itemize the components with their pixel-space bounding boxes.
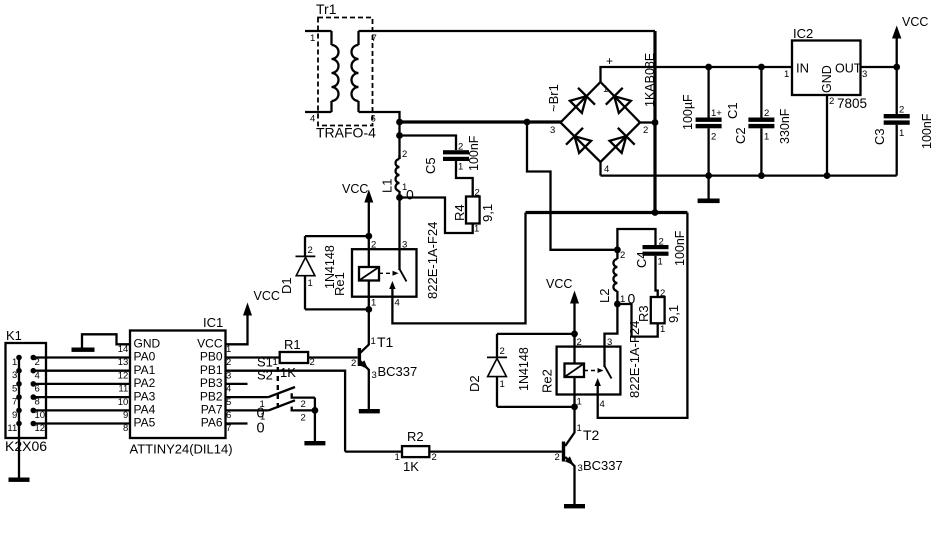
svg-text:2: 2: [620, 250, 625, 261]
svg-text:1: 1: [308, 278, 313, 289]
node 0 (L2 pin1 junction): [614, 301, 621, 308]
svg-text:2: 2: [659, 237, 664, 248]
relay Re2 822E-1A-F24: [557, 321, 642, 410]
node: junction pin6 wire / channel-2 feed: [524, 119, 531, 126]
svg-text:1N4148: 1N4148: [517, 347, 531, 391]
wire: K1 pin12 to IC1 PA5: [33, 422, 130, 424]
svg-text:R3: R3: [636, 305, 651, 322]
wire: C4 branch: [617, 229, 655, 250]
svg-text:VCC: VCC: [254, 289, 280, 303]
svg-text:1: 1: [660, 324, 665, 335]
wire: ground rail: [601, 174, 897, 176]
relay Re1 822E-1A-F24: [352, 198, 440, 310]
svg-text:IN: IN: [796, 61, 809, 76]
svg-text:GND: GND: [820, 65, 834, 93]
svg-text:0: 0: [257, 406, 265, 422]
svg-text:3: 3: [550, 125, 555, 136]
svg-text:1: 1: [310, 33, 315, 44]
svg-text:PB3: PB3: [200, 376, 223, 390]
node: D1 / Re1 pin1 / T1 collector: [365, 306, 372, 313]
svg-text:2: 2: [351, 358, 356, 369]
capacitor C3 100nF: [872, 67, 934, 176]
wire: bridge pin 1 (+) to IC2 IN: [601, 67, 793, 82]
svg-text:4: 4: [600, 399, 605, 410]
svg-text:2: 2: [660, 288, 665, 299]
wire: C5 to R4: [456, 161, 473, 197]
svg-text:822E-1A-F24: 822E-1A-F24: [627, 321, 642, 398]
svg-text:BC337: BC337: [378, 364, 418, 379]
svg-text:2: 2: [500, 346, 505, 357]
wire: Tr1 pin 6 to bridge pin 3 (AC): [359, 112, 400, 122]
wire: Tr1 pin 1 stub: [305, 30, 332, 32]
svg-text:1: 1: [474, 224, 479, 235]
wire: IC2 OUT to VCC/C3: [861, 66, 897, 68]
node: OUT junction: [893, 64, 900, 71]
svg-text:2: 2: [577, 337, 582, 348]
node: junction bridge pin2 / AC vertical: [652, 119, 659, 126]
svg-text:2: 2: [308, 245, 313, 256]
wire: IC1 PB2 to S1: [226, 396, 269, 398]
transistor T2 BC337: [555, 407, 623, 504]
diode Br1 top-left: [570, 88, 595, 113]
Tr1 secondary winding (pins 7,6): [352, 31, 377, 125]
svg-text:2: 2: [764, 108, 769, 119]
wire: K1 pin4 to IC1 PA1: [33, 370, 130, 372]
svg-text:1: 1: [12, 357, 17, 368]
diode Br1 bottom-left: [566, 128, 591, 153]
svg-text:2: 2: [432, 452, 437, 463]
svg-text:2: 2: [643, 125, 648, 136]
power VCC (Re1 / D1): [342, 182, 373, 236]
diode Br1 bottom-right: [610, 128, 635, 153]
svg-text:GND: GND: [134, 337, 161, 351]
wire: K1 pin8 to IC1 PA3: [33, 396, 130, 398]
wire: K1 pin6 to IC1 PA2: [33, 383, 130, 385]
svg-text:D2: D2: [467, 375, 482, 392]
wire: AC line (relay contacts): [526, 211, 688, 214]
node: C2 bottom junction: [758, 172, 765, 179]
svg-text:2: 2: [301, 413, 306, 424]
wire: D2 bottom: [497, 406, 575, 408]
power VCC (top right): [892, 15, 928, 67]
wire: K1 pin2 to IC1 PA0: [33, 356, 130, 358]
ground (main): [707, 176, 709, 199]
svg-text:IC1: IC1: [203, 315, 223, 330]
svg-text:2: 2: [899, 105, 904, 116]
wire: D1 bottom: [305, 308, 369, 310]
wire: C4 to R3: [656, 256, 658, 297]
svg-text:2: 2: [402, 149, 407, 160]
svg-text:3: 3: [402, 240, 407, 251]
svg-text:6: 6: [35, 384, 40, 395]
svg-text:1: 1: [500, 379, 505, 390]
wire: IC1 PB0 stub (to R1 drawn with R1): [226, 383, 248, 385]
svg-text:1: 1: [577, 397, 582, 408]
bridge rectifier Br1 1KAB08E: [546, 53, 657, 175]
svg-text:Re1: Re1: [332, 272, 347, 296]
svg-text:2: 2: [301, 399, 306, 410]
svg-text:PA0: PA0: [134, 350, 156, 364]
svg-text:1: 1: [273, 357, 278, 368]
svg-text:10: 10: [118, 397, 129, 408]
svg-text:9,1: 9,1: [480, 204, 495, 222]
wire: IC1 PB1 to R2: [226, 371, 346, 452]
svg-text:6: 6: [226, 410, 231, 421]
IC IC1 ATTINY24(DIL14): [118, 315, 233, 457]
svg-text:VCC: VCC: [197, 337, 223, 351]
capacitor C2 330nF: [733, 67, 792, 176]
wire: bridge pin 2 stub: [640, 121, 655, 123]
wire: Tr1 pin 4 stub: [305, 111, 332, 113]
wire: L2 node to Re2 pin 3: [605, 304, 618, 347]
resistor R2 1K: [345, 429, 562, 474]
node: S1/S2 common junction: [312, 407, 319, 414]
svg-text:VCC: VCC: [902, 15, 928, 29]
node: L2 top junction: [614, 246, 621, 253]
svg-text:~Br1: ~Br1: [546, 84, 561, 112]
svg-text:330nF: 330nF: [778, 108, 792, 144]
svg-text:1: 1: [899, 128, 904, 139]
svg-text:K1: K1: [6, 328, 22, 343]
connector K1 K2X06: [5, 328, 47, 478]
svg-text:2: 2: [458, 142, 463, 153]
wire: D2 top: [497, 333, 575, 335]
wire: R4 pin1 back to node 0: [400, 198, 473, 234]
Tr1 primary winding (pins 1,4): [310, 31, 339, 125]
diode D1 1N4148: [279, 236, 347, 309]
svg-text:VCC: VCC: [546, 277, 572, 291]
svg-text:PA6: PA6: [201, 416, 223, 430]
svg-text:5: 5: [12, 383, 17, 394]
svg-text:PB1: PB1: [200, 363, 223, 377]
svg-text:100nF: 100nF: [467, 135, 481, 171]
op-amp: voltage regulator IC2 7805: [784, 26, 867, 111]
wire: K1 pin10 to IC1 PA4: [33, 409, 130, 411]
svg-text:1: 1: [226, 344, 231, 355]
wire: IC1 PA6 stub: [226, 422, 248, 424]
svg-text:8: 8: [35, 397, 40, 408]
svg-text:L1: L1: [380, 179, 395, 193]
switch S1: [257, 355, 315, 411]
svg-text:1: 1: [371, 336, 376, 347]
wire: IC2 GND pin to rail: [826, 95, 828, 176]
svg-text:0: 0: [406, 187, 414, 203]
wire: D1 top: [305, 235, 369, 237]
svg-text:1: 1: [603, 84, 608, 95]
svg-text:1: 1: [458, 162, 463, 173]
node: C1 bottom junction: [705, 172, 712, 179]
svg-text:14: 14: [118, 344, 129, 355]
svg-text:K2X06: K2X06: [5, 438, 47, 454]
svg-text:9: 9: [123, 410, 128, 421]
svg-text:1: 1: [577, 423, 582, 434]
switch S2: [257, 368, 315, 424]
svg-text:7: 7: [226, 423, 231, 434]
inductor L1: [380, 149, 408, 198]
svg-text:PA7: PA7: [201, 403, 223, 417]
svg-text:1+: 1+: [711, 108, 722, 119]
node: C1 top junction: [705, 64, 712, 71]
wire: L1 feed vertical: [398, 122, 400, 159]
svg-text:0: 0: [257, 421, 265, 437]
svg-text:T1: T1: [377, 334, 394, 350]
svg-text:PA1: PA1: [134, 363, 156, 377]
svg-text:100nF: 100nF: [673, 230, 687, 266]
svg-text:L2: L2: [597, 289, 612, 303]
svg-text:PA4: PA4: [134, 403, 156, 417]
svg-text:6: 6: [371, 114, 376, 125]
svg-text:Re2: Re2: [540, 369, 555, 393]
svg-text:4: 4: [604, 164, 609, 175]
svg-text:1K: 1K: [280, 365, 296, 380]
node: AC line / bridge pin2 vertical: [652, 209, 659, 216]
ground (T1 emitter): [359, 409, 380, 413]
wire: switches to ground: [314, 398, 316, 441]
svg-text:2: 2: [371, 240, 376, 251]
transistor T1 BC337: [351, 309, 417, 409]
svg-text:R4: R4: [452, 204, 467, 221]
svg-text:1: 1: [371, 298, 376, 309]
svg-text:3: 3: [12, 370, 17, 381]
svg-text:11: 11: [118, 384, 128, 395]
svg-text:BC337: BC337: [583, 458, 623, 473]
node: junction C5 branch: [396, 132, 403, 139]
svg-text:7: 7: [12, 397, 17, 408]
svg-text:D1: D1: [279, 277, 294, 294]
svg-text:100µF: 100µF: [681, 94, 695, 130]
svg-text:7: 7: [372, 33, 377, 44]
wire: IC1 GND pin to ground: [82, 334, 130, 347]
svg-text:11: 11: [7, 423, 17, 434]
svg-text:822E-1A-F24: 822E-1A-F24: [425, 222, 440, 299]
svg-text:C3: C3: [872, 128, 887, 145]
svg-text:2: 2: [555, 452, 560, 463]
svg-text:13: 13: [118, 357, 129, 368]
svg-text:3: 3: [226, 370, 231, 381]
ground (K1): [9, 478, 30, 482]
svg-text:1: 1: [784, 69, 789, 80]
svg-text:3: 3: [578, 463, 583, 474]
svg-text:OUT: OUT: [835, 62, 862, 76]
svg-text:12: 12: [118, 370, 129, 381]
svg-text:C1: C1: [725, 102, 740, 119]
svg-text:2: 2: [310, 357, 315, 368]
ground (switches): [304, 441, 325, 445]
svg-text:C4: C4: [634, 251, 649, 268]
svg-text:4: 4: [35, 370, 40, 381]
node: IC2 GND junction: [824, 172, 831, 179]
svg-text:1K: 1K: [403, 459, 419, 474]
svg-text:R1: R1: [284, 337, 301, 352]
svg-text:1: 1: [395, 452, 400, 463]
node: C2 top junction: [758, 64, 765, 71]
transformer Tr1: [316, 1, 376, 141]
svg-text:9,1: 9,1: [666, 305, 681, 323]
svg-text:1: 1: [764, 132, 769, 143]
svg-text:C2: C2: [733, 127, 748, 144]
svg-text:3: 3: [372, 370, 377, 381]
svg-text:R2: R2: [407, 429, 424, 444]
power VCC (IC1): [226, 289, 280, 344]
svg-text:4: 4: [226, 384, 231, 395]
resistor R3 9,1: [636, 288, 681, 335]
wire: C5 branch: [400, 136, 457, 151]
wire: Tr1 pin 7 to bridge pin 2 (AC): [359, 30, 656, 32]
node: D2 / Re2 pin1 / T2 collector: [571, 404, 578, 411]
node 0 (L1 pin1 junction): [396, 194, 403, 201]
svg-text:8: 8: [123, 423, 128, 434]
svg-text:S2: S2: [257, 368, 273, 383]
svg-text:2: 2: [829, 96, 834, 107]
ground (T2 emitter): [564, 504, 585, 508]
svg-text:T2: T2: [583, 427, 600, 443]
svg-text:9: 9: [12, 410, 17, 421]
inductor L2: [597, 250, 625, 305]
capacitor C5 100nF: [423, 135, 481, 174]
svg-text:4: 4: [395, 298, 400, 309]
svg-text:1: 1: [658, 257, 663, 268]
ground (IC1 GND): [72, 348, 95, 352]
node: junction pin6 wire / L1 feed: [396, 119, 403, 126]
svg-text:3: 3: [862, 69, 867, 80]
svg-text:IC2: IC2: [793, 26, 813, 41]
svg-text:100nF: 100nF: [920, 113, 934, 149]
svg-text:4: 4: [310, 114, 315, 125]
wire: AC line left end down to Re1 pin 4: [392, 213, 525, 324]
capacitor C4 100nF: [634, 230, 687, 268]
svg-text:PB0: PB0: [200, 350, 223, 364]
svg-text:2: 2: [226, 357, 231, 368]
svg-text:Tr1: Tr1: [316, 1, 337, 17]
svg-text:7805: 7805: [837, 96, 867, 111]
svg-text:PA2: PA2: [134, 376, 156, 390]
svg-text:PA3: PA3: [134, 389, 156, 403]
wire: bridge pin 4 (-) to rail: [599, 162, 601, 176]
svg-text:2: 2: [711, 132, 716, 143]
resistor R4 9,1: [452, 188, 495, 235]
capacitor C1 100uF: [681, 67, 740, 176]
svg-text:ATTINY24(DIL14): ATTINY24(DIL14): [130, 442, 233, 457]
resistor R1 1K: [226, 337, 358, 380]
node: VCC / D2 / Re2 pin2: [571, 331, 578, 338]
svg-text:PB2: PB2: [200, 389, 223, 403]
power VCC (Re2 / D2): [546, 277, 579, 334]
svg-text:5: 5: [226, 397, 231, 408]
wire: AC feed jog to L2 circuit: [527, 122, 617, 250]
svg-text:PA5: PA5: [134, 416, 156, 430]
svg-text:1KAB08E: 1KAB08E: [643, 53, 657, 107]
diode D2 1N4148: [467, 334, 555, 407]
svg-text:3: 3: [607, 337, 612, 348]
mechanical link S1-S2: [277, 367, 279, 410]
svg-text:C5: C5: [423, 157, 438, 174]
wire: L2 pin1 to R3 pin1: [617, 304, 657, 337]
wire: IC1 PA7 to S2: [226, 409, 269, 411]
svg-text:TRAFO-4: TRAFO-4: [316, 125, 376, 141]
diode Br1 top-right: [606, 88, 631, 113]
node: VCC / D1 / Re1 pin2: [365, 233, 372, 240]
wire: AC line right end down to Re2 pin 4: [598, 213, 688, 418]
svg-text:VCC: VCC: [342, 182, 368, 196]
svg-text:2: 2: [475, 188, 480, 199]
